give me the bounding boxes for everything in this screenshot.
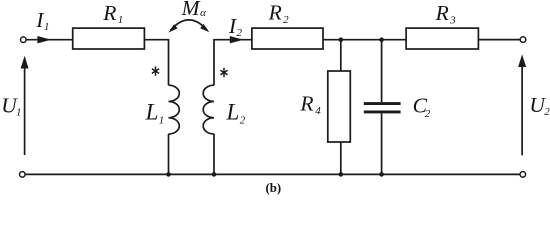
- svg-text:R: R: [268, 1, 282, 25]
- inductor L2: [203, 85, 246, 134]
- svg-text:R: R: [299, 91, 313, 115]
- node R4-rail junction: [339, 172, 344, 177]
- wire input to R1: [26, 39, 72, 41]
- node C2-rail junction: [379, 172, 384, 177]
- terminal bottom-left: [20, 172, 26, 178]
- voltage arrow U2: [518, 54, 550, 155]
- current arrow I1: [35, 8, 51, 43]
- svg-text:M: M: [181, 0, 201, 20]
- svg-text:3: 3: [449, 15, 456, 27]
- node A (R4 tap): [339, 37, 344, 42]
- svg-text:R: R: [435, 1, 449, 25]
- wire node A down to R4: [340, 40, 342, 71]
- svg-text:L: L: [226, 100, 240, 125]
- terminal output top-right: [520, 37, 526, 43]
- wire L2 top corner to R2: [214, 40, 252, 85]
- voltage arrow U1: [1, 56, 28, 155]
- svg-text:2: 2: [544, 106, 550, 118]
- polarity dot (asterisk) L1: [152, 66, 159, 75]
- svg-text:1: 1: [44, 21, 50, 33]
- resistor R1: [73, 1, 145, 49]
- svg-text:1: 1: [16, 107, 22, 119]
- svg-text:L: L: [145, 100, 159, 125]
- wire R1 to L1 top corner: [144, 40, 168, 85]
- svg-text:1: 1: [118, 14, 124, 26]
- node B (C2 tap): [379, 37, 384, 42]
- svg-text:4: 4: [315, 105, 321, 117]
- mutual coupling arrow M_alpha: [168, 0, 209, 33]
- ground rail: [25, 173, 520, 175]
- svg-text:I: I: [35, 8, 44, 32]
- svg-text:α: α: [200, 7, 206, 19]
- wire L1 to ground rail: [168, 134, 170, 174]
- svg-text:2: 2: [240, 115, 246, 127]
- wire R4 to ground rail: [340, 142, 342, 174]
- terminal input top-left: [21, 37, 27, 43]
- svg-text:2: 2: [425, 108, 431, 120]
- svg-text:2: 2: [283, 14, 289, 26]
- resistor R2: [252, 1, 323, 49]
- polarity dot (asterisk) L2: [220, 68, 227, 77]
- capacitor C2: [364, 94, 431, 121]
- wire R2 to R3: [323, 39, 406, 41]
- current arrow I2: [228, 14, 244, 43]
- inductor L1: [145, 85, 180, 134]
- terminal bottom-right: [520, 172, 526, 178]
- node L1-rail junction: [166, 172, 171, 177]
- wire R3 to output terminal: [478, 39, 520, 41]
- svg-text:2: 2: [237, 27, 243, 39]
- svg-text:R: R: [102, 1, 116, 25]
- wire L2 to ground rail: [213, 134, 215, 174]
- node L2-rail junction: [212, 172, 217, 177]
- svg-text:(b): (b): [266, 181, 282, 195]
- svg-text:1: 1: [159, 115, 165, 127]
- resistor R3: [406, 1, 478, 49]
- wire node B down to C2: [381, 40, 383, 102]
- wire C2 to ground rail: [381, 113, 383, 174]
- resistor R4: [299, 71, 350, 142]
